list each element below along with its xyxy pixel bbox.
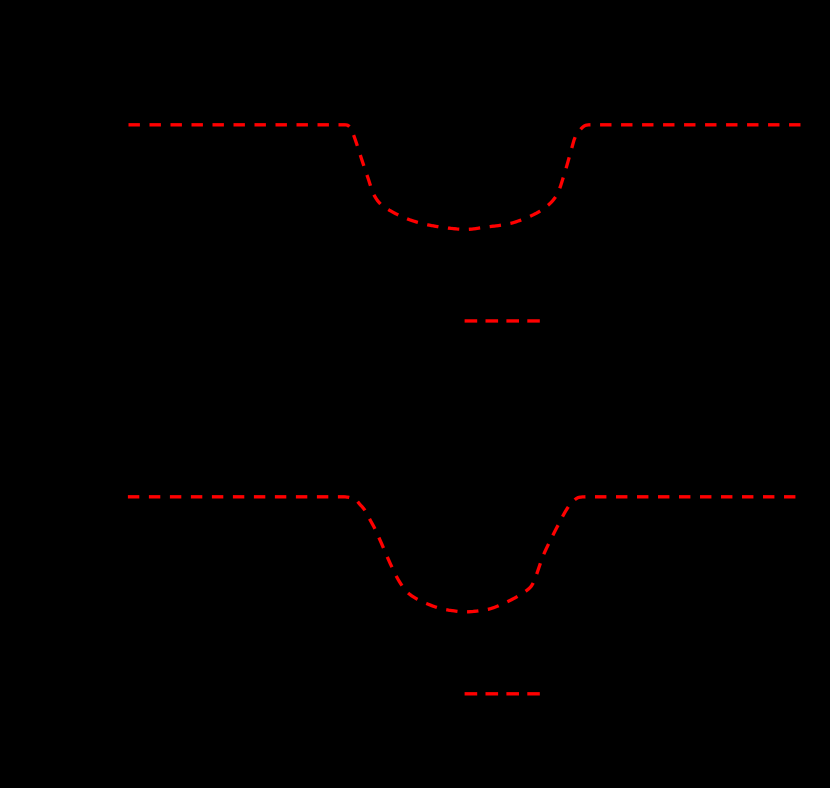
- legend sample: bottom panel red dashed line: [465, 692, 540, 695]
- curve: top panel model light-curve (red dashed): [129, 125, 803, 230]
- legend sample: top panel red dashed line: [465, 319, 540, 322]
- curve: bottom panel model light-curve (red dashed): [128, 497, 803, 612]
